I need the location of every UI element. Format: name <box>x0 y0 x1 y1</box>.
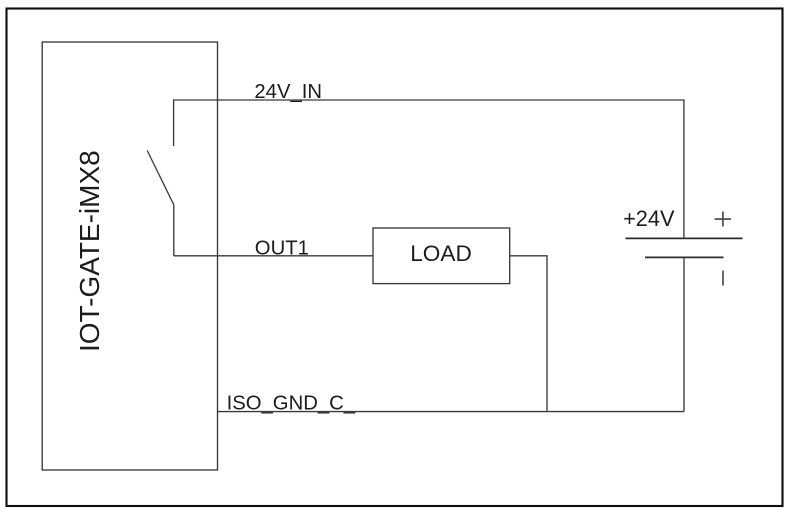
svg-text:OUT1: OUT1 <box>255 238 309 260</box>
svg-text:ISO_GND_C_: ISO_GND_C_ <box>227 393 356 415</box>
device U1 IOT-GATE-iMX8 box <box>42 42 217 470</box>
svg-text:+24V: +24V <box>623 206 675 231</box>
wire battery to ISO_GND_C <box>683 257 685 411</box>
battery BT1 top plate <box>626 237 743 239</box>
svg-text:IOT-GATE-iMX8: IOT-GATE-iMX8 <box>74 150 105 352</box>
battery BT1 bottom plate <box>645 256 724 258</box>
svg-text:LOAD: LOAD <box>410 241 472 266</box>
wire LOAD to ISO_GND_C <box>510 256 547 412</box>
net ISO_GND_C wire <box>218 411 685 413</box>
battery plus symbol <box>715 212 732 227</box>
net 24V_IN wire <box>174 100 684 238</box>
wire switch to OUT1 <box>173 205 175 256</box>
net OUT1 wire <box>174 255 373 257</box>
load box <box>373 228 510 284</box>
switch S1 blade <box>147 151 174 206</box>
svg-text:24V_IN: 24V_IN <box>254 81 322 103</box>
battery minus symbol <box>722 271 724 286</box>
